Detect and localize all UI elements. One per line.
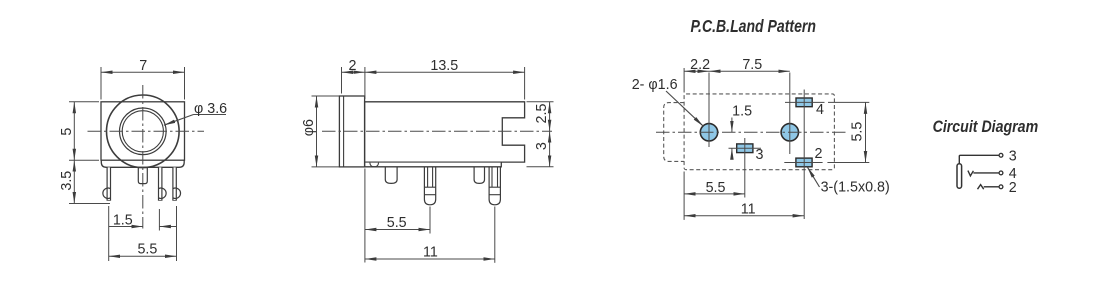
label 3-(1.5x0.8) with leader — [807, 167, 819, 187]
side view long pin D — [489, 167, 500, 205]
svg-text:5.5: 5.5 — [137, 241, 157, 257]
svg-text:7.5: 7.5 — [742, 57, 762, 73]
side view horizontal centerline — [322, 130, 552, 132]
dimension 13.5 (body length) — [365, 67, 525, 100]
pad 3 crosshair horizontal — [729, 147, 762, 149]
svg-text:3: 3 — [534, 142, 550, 150]
svg-text:2: 2 — [815, 146, 823, 162]
dimension 5.5 (front pin row span) — [109, 206, 177, 261]
front view wire leg 3 — [158, 167, 163, 200]
front view jack hole ring outer — [120, 108, 167, 155]
dimension 2.2 — [684, 68, 709, 93]
svg-text:2.5: 2.5 — [534, 104, 550, 124]
dimension φ6 (barrel diameter) — [312, 96, 340, 167]
side view flange inner line — [343, 96, 345, 167]
front view wire leg 1 — [107, 167, 112, 200]
svg-text:φ 3.6: φ 3.6 — [194, 101, 227, 117]
terminal 3 circle — [999, 153, 1003, 157]
land pattern barrel outline dashed — [664, 103, 684, 162]
dimension 7.5 — [709, 70, 790, 72]
wire to terminal 2 — [984, 186, 999, 188]
wire to terminal 4 — [973, 172, 999, 174]
pad 3 — [737, 144, 753, 153]
svg-text:3: 3 — [1009, 148, 1017, 164]
side view body with right notch — [365, 102, 525, 167]
dimension 1.5 (front pin spacing) — [109, 209, 177, 231]
svg-text:2: 2 — [349, 58, 357, 74]
dimension 3.5 (front leg length) — [69, 160, 110, 203]
pad 4 — [796, 98, 812, 107]
svg-text:5.5: 5.5 — [706, 180, 726, 196]
land horizontal centerline — [656, 131, 846, 133]
svg-text:13.5: 13.5 — [430, 58, 458, 74]
land hole right centerline vertical — [789, 73, 791, 155]
svg-text:2- φ1.6: 2- φ1.6 — [632, 77, 678, 93]
dimension 2.5 (notch above centerline) — [527, 102, 554, 131]
dimension 11 (side pin D offset) — [365, 207, 495, 263]
land hole left centerline vertical — [708, 73, 710, 148]
front view bottom base strip — [101, 160, 184, 167]
ring contact (caret) — [978, 185, 984, 190]
front view body square — [101, 102, 185, 160]
svg-text:P.C.B.Land Pattern: P.C.B.Land Pattern — [691, 17, 817, 37]
svg-text:3: 3 — [756, 147, 764, 163]
terminal 4 circle — [999, 171, 1003, 175]
pad 4 crosshair — [785, 101, 825, 103]
side view short pin A — [385, 167, 397, 184]
label 2-φ1.6 with leader — [666, 91, 703, 126]
svg-text:Circuit Diagram: Circuit Diagram — [933, 118, 1039, 136]
pad 2 crosshair — [784, 161, 822, 163]
svg-text:3.5: 3.5 — [59, 171, 75, 191]
dimension 5.5 (side pin B offset) — [365, 169, 430, 263]
svg-text:5.5: 5.5 — [850, 122, 866, 142]
side view flange — [339, 96, 364, 167]
label φ3.6 with leader — [164, 115, 226, 126]
jack sleeve bar — [957, 164, 962, 188]
svg-text:7: 7 — [139, 58, 147, 74]
svg-text:11: 11 — [423, 245, 438, 261]
front view barrel outer circle — [107, 95, 180, 168]
front view vertical centerline — [142, 85, 144, 229]
dimension 3 (below centerline) — [527, 131, 554, 167]
land hole left (2-φ1.6) — [700, 124, 717, 141]
pad 2 — [796, 158, 812, 167]
svg-text:5: 5 — [59, 128, 75, 136]
dimension 7 (front width) — [101, 67, 185, 100]
side view bottom boss dimple — [370, 163, 379, 167]
tip contact (check) — [968, 171, 974, 176]
svg-text:11: 11 — [741, 202, 756, 218]
svg-text:2.2: 2.2 — [690, 57, 710, 73]
pad 3 crosshair vertical — [744, 138, 746, 198]
dimension 2 (flange width) — [342, 67, 365, 99]
front view center pin — [138, 167, 147, 183]
svg-text:2: 2 — [1009, 180, 1017, 196]
svg-text:1.5: 1.5 — [732, 104, 752, 120]
front view jack hole ring inner — [122, 111, 163, 152]
dimension 5.5 (land right) — [865, 102, 867, 162]
pad column centerline vertical — [803, 90, 805, 220]
dimension 5.5 (land bottom) — [684, 172, 745, 220]
dimension 5 (front height) — [69, 102, 99, 160]
svg-text:φ6: φ6 — [301, 119, 317, 136]
svg-text:4: 4 — [816, 102, 824, 118]
front view wire leg 4 — [172, 167, 177, 200]
land pattern body outline dashed — [684, 94, 834, 170]
wire to terminal 3 — [959, 155, 999, 163]
dimension 1.5 (land) — [731, 118, 733, 157]
svg-text:5.5: 5.5 — [387, 215, 407, 231]
land hole right (2-φ1.6) — [781, 124, 798, 141]
dimension 11 (land bottom) — [684, 215, 804, 217]
side view long pin B — [424, 167, 435, 205]
side view short pin C — [474, 167, 484, 184]
terminal 2 circle — [999, 185, 1003, 189]
side view bottom strip line — [365, 161, 502, 163]
svg-text:1.5: 1.5 — [113, 212, 133, 228]
svg-text:3-(1.5x0.8): 3-(1.5x0.8) — [821, 179, 890, 195]
front view horizontal centerline — [88, 130, 205, 132]
